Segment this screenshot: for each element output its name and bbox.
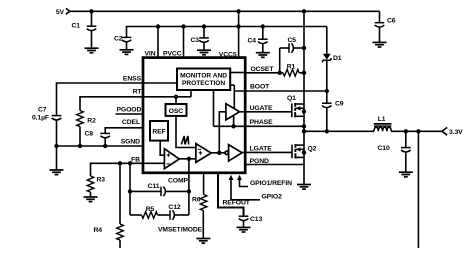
svg-text:PGOOD: PGOOD — [116, 107, 141, 114]
svg-text:R6: R6 — [192, 197, 201, 204]
svg-text:CDEL: CDEL — [122, 119, 140, 126]
svg-text:OCSET: OCSET — [251, 66, 275, 73]
svg-text:C12: C12 — [168, 204, 180, 211]
svg-text:UGATE: UGATE — [250, 105, 273, 112]
svg-text:OSC: OSC — [169, 108, 184, 115]
svg-text:MONITOR AND: MONITOR AND — [180, 73, 227, 80]
svg-text:VCC5: VCC5 — [219, 52, 237, 59]
svg-text:PGND: PGND — [250, 158, 269, 165]
svg-text:BOOT: BOOT — [250, 83, 270, 90]
svg-text:5V: 5V — [56, 9, 65, 16]
svg-text:R1: R1 — [287, 63, 296, 70]
svg-text:0.1µF: 0.1µF — [32, 114, 49, 121]
svg-text:C2: C2 — [114, 36, 123, 43]
svg-text:ENSS: ENSS — [123, 76, 142, 83]
svg-text:Q2: Q2 — [308, 145, 317, 152]
svg-text:C3: C3 — [191, 37, 200, 44]
svg-text:L1: L1 — [378, 116, 386, 123]
svg-text:VIN: VIN — [144, 50, 155, 57]
svg-text:C8: C8 — [85, 130, 94, 137]
svg-text:GPIO1/REFIN: GPIO1/REFIN — [250, 180, 292, 187]
svg-text:C9: C9 — [335, 101, 344, 108]
svg-text:RT: RT — [133, 88, 143, 95]
svg-text:VMSET/MODE: VMSET/MODE — [158, 226, 203, 233]
svg-text:REFOUT: REFOUT — [223, 200, 251, 207]
svg-text:C10: C10 — [378, 145, 390, 152]
svg-text:COMP: COMP — [168, 178, 189, 185]
svg-text:LGATE: LGATE — [250, 145, 273, 152]
svg-text:C7: C7 — [38, 106, 47, 113]
svg-text:R3: R3 — [97, 176, 106, 183]
svg-text:C11: C11 — [148, 183, 160, 190]
svg-text:FB: FB — [131, 157, 140, 164]
svg-text:D1: D1 — [333, 55, 342, 62]
svg-text:PHASE: PHASE — [250, 119, 273, 126]
svg-text:GPIO2: GPIO2 — [262, 193, 283, 200]
svg-text:PVCC: PVCC — [163, 50, 182, 57]
svg-text:R2: R2 — [87, 117, 96, 124]
svg-text:C13: C13 — [250, 216, 262, 223]
svg-text:C5: C5 — [287, 37, 296, 44]
svg-text:R4: R4 — [94, 227, 103, 234]
svg-text:3.3V: 3.3V — [449, 129, 463, 136]
svg-text:C6: C6 — [387, 17, 396, 24]
svg-text:C1: C1 — [72, 22, 81, 29]
svg-text:R5: R5 — [146, 206, 155, 213]
svg-text:PROTECTION: PROTECTION — [182, 80, 225, 87]
svg-text:C4: C4 — [248, 38, 257, 45]
svg-text:REF: REF — [152, 128, 165, 135]
svg-text:SGND: SGND — [121, 139, 140, 146]
svg-text:Q1: Q1 — [287, 95, 296, 102]
